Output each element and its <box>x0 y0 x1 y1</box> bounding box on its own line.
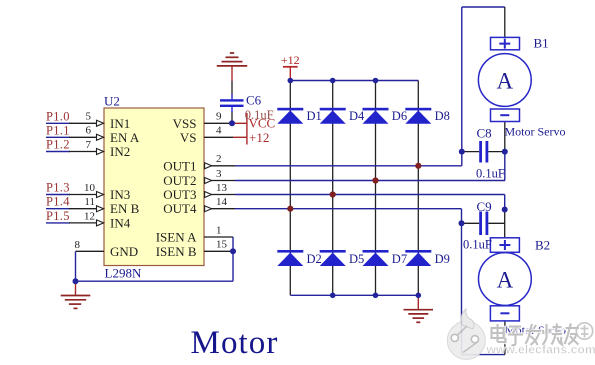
svg-text:IN1: IN1 <box>110 116 130 131</box>
svg-text:D4: D4 <box>349 109 365 123</box>
svg-text:9: 9 <box>216 111 222 123</box>
svg-text:15: 15 <box>216 239 228 251</box>
svg-text:5: 5 <box>86 111 92 123</box>
svg-text:D2: D2 <box>307 252 322 266</box>
svg-text:L298N: L298N <box>105 266 142 281</box>
svg-text:13: 13 <box>216 182 228 194</box>
svg-text:D1: D1 <box>307 109 322 123</box>
svg-text:D7: D7 <box>392 252 407 266</box>
svg-text:C8: C8 <box>477 126 492 141</box>
svg-text:P1.4: P1.4 <box>46 195 70 209</box>
svg-text:4: 4 <box>216 125 222 137</box>
svg-text:OUT4: OUT4 <box>163 201 197 216</box>
svg-text:B2: B2 <box>535 238 550 253</box>
svg-text:ISEN A: ISEN A <box>156 230 197 245</box>
svg-text:+12: +12 <box>249 130 269 145</box>
svg-text:U2: U2 <box>104 94 120 109</box>
svg-text:1: 1 <box>216 224 222 236</box>
svg-text:OUT1: OUT1 <box>163 158 196 173</box>
svg-text:+12: +12 <box>281 53 300 67</box>
svg-text:A: A <box>496 68 513 93</box>
svg-text:11: 11 <box>84 196 95 208</box>
svg-text:10: 10 <box>84 182 96 194</box>
svg-text:P1.2: P1.2 <box>46 138 70 152</box>
svg-text:C6: C6 <box>246 93 262 108</box>
svg-text:C9: C9 <box>477 199 492 214</box>
svg-text:7: 7 <box>86 139 92 151</box>
svg-text:6: 6 <box>86 125 92 137</box>
svg-text:D9: D9 <box>435 252 450 266</box>
svg-text:Motor Servo: Motor Servo <box>505 125 566 139</box>
svg-text:ISEN B: ISEN B <box>156 244 197 259</box>
svg-text:VS: VS <box>180 130 197 145</box>
svg-text:12: 12 <box>84 210 95 222</box>
svg-text:A: A <box>497 267 514 292</box>
svg-text:www.elecfans.com: www.elecfans.com <box>486 343 595 357</box>
svg-text:D8: D8 <box>435 109 450 123</box>
svg-text:P1.3: P1.3 <box>46 181 70 195</box>
svg-text:0.1uF: 0.1uF <box>463 238 492 252</box>
svg-text:P1.0: P1.0 <box>46 109 70 123</box>
svg-text:IN2: IN2 <box>110 144 130 159</box>
svg-text:P1.5: P1.5 <box>46 209 70 223</box>
svg-text:14: 14 <box>216 196 228 208</box>
svg-text:D5: D5 <box>349 252 364 266</box>
svg-text:P1.1: P1.1 <box>46 123 70 137</box>
svg-text:0.1uF: 0.1uF <box>476 167 505 181</box>
svg-text:IN4: IN4 <box>110 215 131 230</box>
svg-text:IN3: IN3 <box>110 187 130 202</box>
svg-text:EN B: EN B <box>110 201 140 216</box>
svg-text:Motor: Motor <box>191 325 279 361</box>
svg-text:0.1uF: 0.1uF <box>245 108 274 122</box>
svg-text:2: 2 <box>216 153 222 165</box>
svg-text:3: 3 <box>216 168 222 180</box>
svg-text:D6: D6 <box>392 109 407 123</box>
svg-text:EN A: EN A <box>110 130 140 145</box>
svg-text:VSS: VSS <box>173 116 197 131</box>
svg-text:OUT3: OUT3 <box>163 187 196 202</box>
svg-text:8: 8 <box>75 239 81 251</box>
svg-text:OUT2: OUT2 <box>163 173 196 188</box>
svg-text:B1: B1 <box>534 36 549 51</box>
svg-text:GND: GND <box>110 244 138 259</box>
